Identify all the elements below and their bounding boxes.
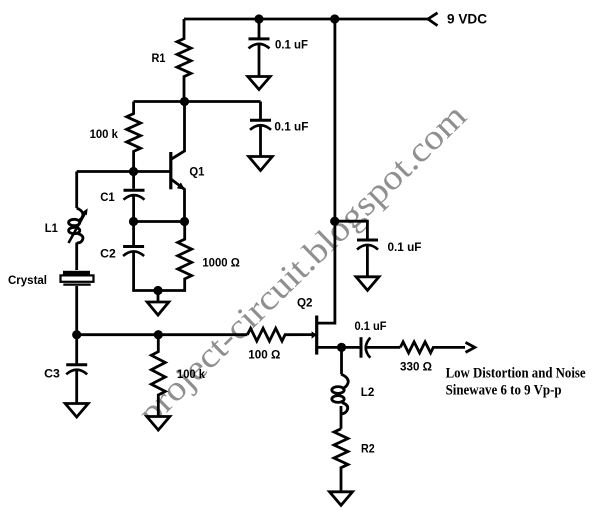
wire: cap3 to ground (366, 245, 369, 277)
capacitor 0.1uF second bypass: straight plate (250, 119, 271, 122)
wire: Q2 emitter to L2 (340, 347, 343, 374)
capacitor C3: straight plate (66, 363, 87, 366)
svg-text:0.1 uF: 0.1 uF (275, 38, 308, 52)
wire: cap to ground (259, 125, 262, 156)
wire: C3 to ground (75, 370, 78, 404)
node: below R1 (180, 97, 189, 106)
wire: cap to ground (258, 44, 261, 77)
svg-text:330 Ω: 330 Ω (400, 360, 432, 374)
node: rail junction at first bypass cap (254, 14, 263, 23)
svg-text:0.1 uF: 0.1 uF (388, 240, 422, 254)
ground below top bypass cap (248, 77, 270, 90)
wire: crystal to bottom node (75, 286, 78, 335)
wire: left column down to L1 (75, 172, 78, 209)
svg-text:0.1 uF: 0.1 uF (274, 120, 308, 134)
capacitor C3: curved plate (66, 370, 87, 375)
wire: C2 bottom to ground node (134, 252, 158, 291)
node: Q1 emitter bottom (180, 217, 189, 226)
capacitor C2: straight plate (123, 245, 144, 248)
svg-text:0.1 uF: 0.1 uF (355, 319, 387, 333)
svg-text:L1: L1 (45, 221, 58, 235)
capacitor 0.1uF right bypass: straight plate (357, 239, 378, 242)
wire: C1/C2 node row (133, 220, 185, 223)
transistor Q2 emitter arrow (312, 331, 317, 338)
capacitor 0.1uF top bypass: lead (258, 19, 261, 38)
svg-text:R2: R2 (361, 441, 375, 455)
svg-text:C2: C2 (100, 247, 116, 261)
capacitor C1: curved plate (124, 195, 145, 200)
transistor Q2 base bar (315, 316, 318, 355)
inductor L1 arrow (69, 212, 86, 243)
node: right column branch (330, 217, 339, 226)
svg-text:Q2: Q2 (297, 296, 313, 310)
svg-text:Q1: Q1 (189, 165, 204, 179)
capacitor 0.1uF coupling: curved plate (366, 338, 371, 358)
transistor Q1 collector (172, 102, 185, 160)
wire: bottom row from crystal node to Q2 base (77, 333, 248, 336)
output arrow (466, 342, 475, 352)
wire: L2 to R2 (340, 406, 343, 429)
transistor Q2 emitter (318, 346, 361, 349)
ground below C2/1000ohm node (157, 291, 160, 303)
ground below lower 100k (147, 417, 170, 431)
node: rail junction at main vertical (330, 14, 339, 23)
node: C1 bottom (129, 217, 138, 226)
resistor R2 with leads (334, 429, 348, 492)
svg-text:Crystal: Crystal (8, 273, 47, 287)
svg-text:100 k: 100 k (177, 367, 205, 381)
resistor 330 ohm (400, 342, 465, 353)
wire: node row below R1 (134, 100, 261, 103)
node: crystal bottom (72, 330, 81, 339)
wire: from left column to Q1 base (77, 170, 170, 173)
node: Q2 emitter (337, 343, 346, 352)
ground below R2 (330, 492, 353, 506)
svg-text:C1: C1 (100, 190, 115, 204)
svg-text:C3: C3 (44, 367, 60, 381)
inductor L1 (variable) coil (77, 208, 83, 221)
svg-text:L2: L2 (361, 385, 375, 399)
transistor Q1 base bar (169, 152, 172, 189)
svg-text:100 Ω: 100 Ω (248, 348, 280, 362)
svg-text:1000 Ω: 1000 Ω (202, 255, 240, 269)
connector: 9 VDC input terminal (428, 13, 438, 26)
ground below right bypass cap (356, 277, 379, 291)
transistor Q2 collector + long wire to rail (318, 19, 335, 323)
wire: L1 to crystal (75, 243, 78, 271)
capacitor 0.1uF second bypass: lead (259, 102, 262, 120)
svg-text:Sinewave 6 to 9 Vp-p: Sinewave 6 to 9 Vp-p (446, 383, 562, 399)
capacitor C2: lead (132, 222, 135, 246)
capacitor 0.1uF second bypass: curved plate (250, 125, 271, 130)
capacitor C3: lead (75, 335, 78, 364)
capacitor 0.1uF right bypass: curved plate (357, 245, 378, 250)
inductor L2 coil (341, 374, 348, 389)
svg-text:100 k: 100 k (90, 127, 119, 141)
capacitor C2: curved plate (123, 251, 144, 256)
ground below second bypass cap (249, 157, 273, 171)
capacitor 0.1uF coupling: straight plate (360, 337, 363, 358)
wire: coupling cap to 330 ohm (367, 346, 401, 349)
resistor R1 with leads (177, 19, 191, 102)
transistor Q1 emitter arrow (177, 182, 185, 189)
capacitor C1: lead (132, 172, 135, 189)
resistor 100k upper with leads (127, 102, 141, 172)
transistor Q1 emitter (172, 180, 185, 222)
svg-text:9 VDC: 9 VDC (447, 12, 487, 27)
svg-text:R1: R1 (152, 51, 166, 65)
svg-text:Low Distortion and Noise: Low Distortion and Noise (446, 365, 586, 381)
capacitor C1: straight plate (124, 189, 145, 192)
capacitor 0.1uF top bypass: curved plate (249, 44, 270, 49)
resistor 100 ohm (series base) (247, 328, 315, 341)
node: C2/1000ohm ground node (153, 286, 162, 295)
wire: top 9V rail (184, 18, 428, 21)
resistor 100k lower with leads (151, 335, 165, 417)
crystal X1 (63, 271, 90, 275)
wire: C1 to node (132, 195, 135, 221)
wire: right node branch to bypass cap3 (335, 221, 368, 239)
resistor 1000 ohm with leads (158, 222, 192, 291)
capacitor 0.1uF top bypass: straight plate (249, 37, 270, 40)
node: lower 100k top (154, 330, 163, 339)
ground below C3 (65, 404, 88, 418)
node: Q1 base node (129, 167, 138, 176)
